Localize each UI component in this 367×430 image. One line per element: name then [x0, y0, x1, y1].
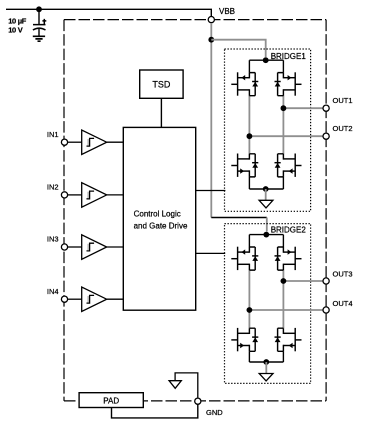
wire OUT2 gray [249, 135, 323, 137]
capacitor C1 top plate with plus mark [33, 19, 46, 25]
wire BRIDGE1 left leg gray [248, 96, 250, 154]
node VBB feed junction [208, 37, 214, 43]
wire BRIDGE2 right leg gray [282, 270, 284, 328]
IC boundary dashed box [64, 20, 326, 401]
capacitor C1 curved bottom plate [33, 28, 46, 30]
wire VBB supply top rail [6, 9, 211, 16]
node BRIDGE1 bottom rail junction [263, 186, 269, 192]
svg-text:IN4: IN4 [47, 287, 59, 296]
ground BRIDGE1 triangle [259, 200, 273, 208]
wire TSD to control logic [160, 98, 162, 127]
transistor Q8 BRIDGE2 low-side right [275, 328, 302, 351]
wire BRIDGE2 ground stub gray [265, 362, 267, 374]
wire PAD to GND [112, 404, 198, 418]
TSD block [140, 70, 183, 98]
wire VBB feed gray vertical [210, 23, 212, 218]
transistor Q5 BRIDGE2 high-side left [231, 247, 258, 270]
wire VBB feed to BRIDGE1 [211, 40, 265, 57]
buffer IN3 schmitt trigger [82, 235, 107, 259]
ground earth symbol [33, 36, 45, 41]
svg-text:10 V: 10 V [8, 26, 23, 35]
wire BRIDGE1 bottom rail [249, 188, 283, 190]
BRIDGE1 dotted box [225, 49, 311, 211]
wire VBB feed to BRIDGE2 vertical [266, 218, 268, 232]
transistor Q4 BRIDGE1 low-side right [275, 154, 302, 177]
wire OUT1 gray [283, 107, 323, 109]
svg-text:TSD: TSD [152, 79, 171, 89]
svg-text:OUT2: OUT2 [333, 124, 353, 133]
svg-text:and Gate Drive: and Gate Drive [134, 222, 188, 231]
svg-text:BRIDGE2: BRIDGE2 [271, 226, 307, 235]
buffer IN1 schmitt trigger [82, 130, 107, 155]
terminal VBB [208, 17, 214, 23]
wire BRIDGE1 rail to high-side drains [249, 60, 283, 72]
terminal OUT2 [323, 133, 329, 139]
terminal OUT4 [323, 307, 329, 313]
wire BRIDGE2 left leg gray [248, 270, 250, 328]
node OUT2 takeoff [247, 133, 253, 139]
transistor Q2 BRIDGE1 high-side right [275, 72, 302, 95]
svg-text:VBB: VBB [219, 7, 235, 16]
node capacitor junction [36, 6, 42, 12]
wire OUT4 gray [249, 309, 323, 311]
svg-text:10 µF: 10 µF [8, 17, 27, 26]
wire VBB feed to BRIDGE2 horizontal [211, 217, 266, 219]
wire BRIDGE2 low-side sources to bottom rail [249, 351, 283, 362]
wire BRIDGE1 low-side sources to bottom rail [249, 177, 283, 189]
svg-text:GND: GND [206, 408, 223, 417]
ground BRIDGE2 triangle [259, 374, 273, 381]
transistor Q1 BRIDGE1 high-side left [231, 72, 258, 95]
svg-text:PAD: PAD [103, 396, 119, 405]
node BRIDGE2 bottom rail junction [263, 359, 269, 365]
transistor Q3 BRIDGE1 low-side left [231, 154, 258, 177]
wire control to BRIDGE1 [196, 190, 226, 192]
svg-text:OUT4: OUT4 [333, 299, 353, 308]
transistor Q7 BRIDGE2 low-side left [231, 328, 258, 351]
wire BRIDGE2 bottom rail [249, 361, 283, 363]
wire capacitor to ground [38, 29, 40, 36]
PAD block [79, 393, 143, 408]
ground arrow symbol near GND [175, 373, 198, 398]
svg-text:Control Logic: Control Logic [134, 210, 181, 219]
wire BRIDGE2 top rail [249, 234, 283, 236]
node OUT4 takeoff [247, 307, 253, 313]
terminal OUT1 [323, 105, 329, 111]
wire control to BRIDGE2 [196, 252, 226, 254]
buffer IN4 schmitt trigger [82, 287, 107, 312]
node BRIDGE1 top rail junction [263, 57, 269, 63]
terminal OUT3 [323, 278, 329, 284]
wire capacitor stub [38, 9, 40, 24]
svg-text:IN2: IN2 [47, 183, 59, 192]
wire BRIDGE2 rail to high-side drains [249, 235, 283, 247]
wire BRIDGE1 right leg gray [282, 96, 284, 154]
BRIDGE2 dotted box [225, 224, 311, 384]
node OUT1 takeoff [281, 105, 287, 111]
svg-text:OUT3: OUT3 [333, 270, 353, 279]
node OUT3 takeoff [281, 278, 287, 284]
svg-text:IN3: IN3 [47, 235, 59, 244]
wire BRIDGE1 top rail [249, 59, 283, 61]
buffer IN2 schmitt trigger [82, 183, 107, 208]
transistor Q6 BRIDGE2 high-side right [275, 247, 302, 270]
control logic block [123, 127, 195, 310]
svg-text:OUT1: OUT1 [333, 96, 353, 105]
wire BRIDGE1 ground stub gray [265, 189, 267, 200]
terminal GND [195, 398, 201, 404]
node BRIDGE2 top rail junction [263, 232, 269, 238]
svg-text:IN1: IN1 [47, 130, 59, 139]
wire OUT3 gray [283, 280, 323, 282]
